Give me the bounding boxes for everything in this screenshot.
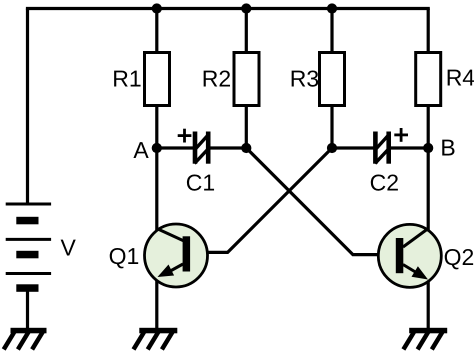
svg-text:C2: C2: [370, 170, 399, 196]
wire: R2 bottom to C1 right node: [245, 104, 248, 148]
node: R3/C2/Q1-base junction dot: [327, 143, 337, 153]
wire: battery positive lead (left side): [26, 9, 29, 206]
transistor Q2: [378, 224, 441, 287]
wire: rail to R1: [155, 9, 158, 55]
wire: rail to R3: [330, 9, 333, 55]
wire: Q1 emitter to ground: [155, 278, 158, 330]
wire: C1 to R2 node: [209, 146, 246, 149]
C1 polarity + sign: [178, 129, 192, 143]
svg-text:Q2: Q2: [444, 244, 474, 270]
svg-text:R2: R2: [202, 66, 231, 92]
svg-text:A: A: [133, 137, 149, 163]
wire: R4 to node B: [427, 104, 430, 148]
resistor R4: [416, 53, 441, 106]
wire: R3 node to C2: [332, 146, 376, 149]
node: rail junction dot 2: [241, 3, 251, 13]
capacitor C1: [193, 132, 211, 164]
wire: rail to R4: [427, 9, 430, 55]
wire: R1 to node A: [155, 104, 158, 148]
node: rail junction dot 3: [327, 3, 337, 13]
svg-text:R1: R1: [112, 66, 141, 92]
wire: cross-coupling R2/C1 node to Q2 base: [246, 148, 396, 255]
resistor R1: [145, 53, 170, 106]
svg-text:Q1: Q1: [109, 243, 140, 269]
ground (battery negative): [4, 328, 47, 350]
svg-text:V: V: [61, 234, 77, 260]
resistor R3: [320, 53, 345, 106]
wire: rail to R2: [245, 9, 248, 55]
svg-text:C1: C1: [186, 170, 215, 196]
node: rail junction dot 1: [152, 3, 162, 13]
wire: node B down to Q2 collector: [427, 148, 430, 230]
wire: cross-coupling R3/C2 node to Q1 base: [190, 148, 332, 252]
C2 polarity + sign: [394, 128, 408, 142]
svg-text:R3: R3: [290, 65, 319, 91]
wire: node A to C1: [157, 146, 194, 149]
svg-text:R4: R4: [446, 64, 474, 90]
wire: top power rail: [28, 9, 429, 11]
wire: C2 to node B: [388, 146, 428, 149]
node: R2/C1/Q2-base junction dot: [241, 143, 251, 153]
svg-text:B: B: [440, 135, 455, 161]
battery V: [6, 204, 51, 292]
wire: Q2 emitter to ground: [427, 279, 430, 330]
transistor Q1: [145, 224, 208, 287]
resistor R2: [234, 53, 259, 106]
wire: R3 bottom to C2 left node: [330, 104, 333, 148]
wire: battery negative to ground: [26, 290, 29, 330]
node B junction dot: [423, 143, 433, 153]
node A junction dot: [152, 143, 162, 153]
wire: node A down to Q1 collector: [155, 148, 158, 230]
ground (Q1 emitter): [134, 328, 178, 350]
capacitor C2: [373, 132, 391, 164]
ground (Q2 emitter): [403, 328, 447, 350]
